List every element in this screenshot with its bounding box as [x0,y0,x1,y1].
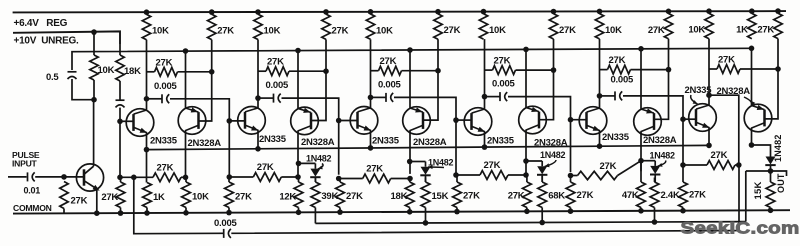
node rail 27K at x326 [323,9,329,15]
node rail 10K at x370 [368,9,374,15]
svg-text:27K: 27K [101,192,118,203]
transistor 2N335 stage 11 [689,104,717,132]
node T12 collector [749,142,755,148]
svg-text:+10V UNREG.: +10V UNREG. [14,36,80,47]
wire 27K column down stage 2 [211,40,213,72]
svg-text:18K: 18K [391,191,408,202]
transistor Q1 input [76,164,103,191]
resistor 27K bottom coupling stage 5 [339,178,363,180]
wire emitter stage 9 [599,131,601,147]
wire collector stage 3 [257,98,259,108]
node emitter bus stage 11 [706,143,712,149]
svg-text:27K: 27K [71,196,88,207]
node rail 27K at x553 [551,9,557,15]
diode 1N482 stage 4 [310,169,320,177]
svg-text:OUT: OUT [776,173,786,193]
wire 10K to node [93,80,95,100]
resistor 2.4K bottom x654 [654,178,656,183]
capacitor 0.01 input [27,172,29,181]
node common x570 [568,208,574,214]
wire 10K column to collector node stage 3 [257,40,259,99]
node coupling 27K right stage 1 [209,69,215,75]
node rail 10K at x146 [144,9,150,15]
node collector stage 7 [482,94,488,100]
wire PNP collector stage 4 [297,131,299,175]
svg-text:2N328A: 2N328A [188,138,222,149]
transistor 2N335 stage 9 [579,107,607,135]
node common x186 [183,210,189,216]
resistor 27K bottom coupling stage 11 [683,164,707,166]
node coupling 27K right stage 5 [666,67,672,73]
resistor 47K bottom x641 [640,161,642,182]
node PNP emitter bus stage 8 [523,47,529,53]
resistor 27K coupling top stage 2 [258,70,266,72]
resistor 12K bottom x298 [298,177,300,183]
node emitter bus stage 7 [482,144,488,150]
wire diode jog stage 6 [410,161,426,163]
transistor 2N335 stage 7 [464,108,492,136]
svg-text:10K: 10K [605,25,622,36]
capacitor 0.005 feedback [223,229,225,238]
wire diode cathode node [770,166,772,171]
svg-text:INPUT: INPUT [12,159,38,169]
wire emitter stage 11 [708,128,710,146]
resistor 27K bottom coupling stage 7 [456,174,480,176]
wire T11 collector to 739 col [709,95,739,165]
svg-text:27K: 27K [484,160,501,171]
node base stage 9 [568,117,574,123]
wire cap to next base stage 5 [394,97,456,120]
resistor 68K bottom x542 [541,176,543,182]
svg-text:10K: 10K [688,25,705,36]
wire diode cathode stage 6 [425,176,427,182]
resistor 10K supply x370 [366,14,374,39]
node divider line x425 [423,220,429,226]
resistor 27K supply x326 [322,14,330,39]
wire riser left from cathode [746,170,771,172]
svg-text:2N335: 2N335 [487,136,515,147]
svg-text:+6.4V REG: +6.4V REG [14,18,68,29]
wire emitter bus drop to 1K node [146,150,148,178]
node common x526 [524,209,530,215]
node base stage 11 [680,116,686,122]
node emitter bus stage 1 [144,147,150,153]
capacitor 0.005 coupling stage 9 [600,95,615,97]
svg-text:15K: 15K [432,191,449,202]
wire base col down stage 3 [228,121,230,176]
wire 27K bias to common [63,209,65,214]
node coupling 27K right stage 4 [551,67,557,73]
svg-text:1K: 1K [736,25,748,36]
node diode jog stage 4 [296,161,302,167]
wire PNP emitter stage 4 [297,51,299,109]
node bottom line left stage 5 [336,176,342,182]
svg-text:27K: 27K [156,57,173,68]
svg-text:27K: 27K [559,25,576,36]
resistor 1K supply x751 [748,13,756,38]
node coupling 27K right stage 2 [323,68,329,74]
svg-text:0.5: 0.5 [46,72,59,83]
svg-text:2N335: 2N335 [372,136,400,147]
wire feedback drop [134,177,223,233]
node common x457 [454,209,460,215]
diode 1N482 stage 8 [537,166,547,174]
wire base col down stage 9 [570,120,572,172]
wire PNP base corner stage 2 [311,71,326,120]
svg-text:12K: 12K [279,191,296,202]
svg-text:27K: 27K [380,56,397,67]
node PNP emitter bus stage 6 [407,47,413,53]
svg-text:68K: 68K [548,190,565,201]
resistor 27K bottom x570 [570,176,572,183]
wire divider 223 line [315,222,745,224]
svg-text:1N482: 1N482 [773,134,783,162]
node bottom line left stage 3 [227,174,233,180]
resistor 27K coupling top stage 5 [600,69,608,71]
svg-text:10K: 10K [376,25,393,36]
resistor 27K coupling top stage 6 [709,68,717,70]
node bottom line right stage 7 [523,172,529,178]
node +10V tap [91,29,97,35]
node base stage 3 [227,118,233,124]
node diode jog stage 10 [638,158,644,164]
wire collector stage 11 [708,95,710,105]
svg-text:47K: 47K [622,190,639,201]
resistor 27K bottom x340 [339,179,341,183]
node feedback tap [131,175,137,181]
wire base col down stage 11 [682,119,684,165]
svg-text:SeekIC.com: SeekIC.com [681,218,800,237]
svg-text:2N328A: 2N328A [643,135,677,146]
wire diode cathode stage 8 [541,175,543,182]
node common x683 [680,208,686,214]
wire PNP collector stage 12 [751,128,753,145]
wire Q1 collector [93,100,95,167]
svg-text:27K: 27K [609,55,626,66]
wire PNP base corner stage 5 [654,70,669,120]
wire PNP emitter stage 12 [751,48,753,105]
resistor 27K input bias [60,182,68,209]
callout arrow 1N482 stage 8 [545,160,556,167]
wire PNP collector stage 2 [185,131,187,177]
wire 0.5 cap to 10K node [72,79,94,100]
resistor 15K bottom x770 [770,171,772,182]
wire 27K column down stage 4 [325,39,327,71]
node collector stage 5 [368,95,374,101]
wire +10V UNREG rail [13,31,120,44]
node bottom line left stage 9 [568,173,574,179]
wire base stage 9 [571,119,588,121]
node rail 27K at x668 [666,9,672,15]
wire output stub [771,171,787,176]
transistor 2N335 stage 5 [350,107,378,135]
svg-text:10K: 10K [264,26,281,37]
wire output node riser [745,171,747,222]
node rail 10K at x709 [706,8,712,14]
node diode jog stage 8 [523,158,529,164]
node common x147 [144,210,150,216]
svg-text:27K: 27K [577,190,594,201]
node collector stage 9 [597,93,603,99]
wire cap to next base stage 9 [623,96,683,119]
svg-text:1N482: 1N482 [650,151,676,161]
capacitor 0.005 coupling stage 5 [371,96,386,98]
wire diode jog stage 8 [526,160,542,162]
svg-text:2.4K: 2.4K [661,190,680,201]
node common x120 [118,210,124,216]
svg-text:27K: 27K [346,191,363,202]
wire filtered emitter bus [72,48,752,70]
resistor 27K bottom coupling stage 1 [120,176,153,178]
transistor 2N335 stage 3 [238,107,266,135]
node rail 27K at x778 [775,8,781,14]
svg-text:27K: 27K [332,25,349,36]
wire 10K column to collector node stage 5 [370,39,372,97]
wire T12 collector to diode [752,145,771,157]
node rail 1K at x751 [749,8,755,14]
resistor 27K coupling top stage 3 [371,70,379,72]
wire PNP collector stage 6 [409,131,411,174]
resistor 27K bottom x229 [228,177,230,182]
capacitor 0.005 coupling stage 1 [147,98,162,100]
resistor 10K supply x483 [479,14,487,39]
svg-text:2N335: 2N335 [150,135,178,146]
resistor 1K bottom x147 [143,183,152,208]
wire collector stage 9 [599,96,601,108]
resistor 27K supply x553 [549,14,557,39]
wire COMMON rail [13,210,790,213]
transistor 2N328A stage 12 [744,104,772,132]
svg-text:0.005: 0.005 [492,79,515,90]
node collector stage 1 [144,96,150,102]
callout arrow 2N328A stage 12 [744,97,752,106]
transistor 2N328A stage 4 [291,107,319,135]
node common x409 [407,209,413,215]
wire input cap to base [35,176,83,178]
node PNP emitter bus stage 2 [183,48,189,54]
node coupling 27K right stage 3 [435,68,441,74]
node divider line x654 [652,219,658,225]
wire 27K column down stage 8 [553,39,555,70]
node common x770 [768,208,774,214]
wire collector stage 1 [146,99,148,110]
svg-text:0.005: 0.005 [154,81,177,92]
wire collector stage 7 [484,97,486,110]
node bottom line right stage 1 [183,175,189,181]
node 10K/0.5 junction [91,97,97,103]
node base stage 5 [336,118,342,124]
wire diode cathode stage 4 [314,178,316,182]
node collector stage 3 [255,95,261,101]
node rail 10K at x258 [255,9,261,15]
svg-text:15K: 15K [753,181,764,199]
wire base stage 1 [120,120,134,122]
svg-text:27K: 27K [689,190,706,201]
svg-text:18K: 18K [124,66,141,77]
wire +6.4V REG top supply rail [13,11,786,12]
wire base col down stage 7 [455,120,457,173]
resistor 27K supply x438 [434,14,442,39]
resistor 10K supply x258 [254,14,262,39]
node PNP emitter bus stage 10 [638,46,644,52]
node emitter bus stage 3 [255,146,261,152]
svg-text:27K: 27K [444,25,461,36]
resistor 10K supply x709 [705,13,713,38]
node rail 27K at x438 [435,9,441,15]
wire cap to next base stage 1 [170,99,229,121]
wire 27K column down stage 10 [668,39,670,70]
resistor 18K [116,55,124,81]
wire +10V tap [93,32,95,55]
wire cap to next base stage 7 [508,97,571,120]
svg-text:2N335: 2N335 [259,134,287,145]
diode 1N482 output [766,157,776,165]
capacitor 0.005 coupling stage 7 [485,96,500,98]
wire emitter stage 1 [146,133,148,150]
svg-text:27K: 27K [366,164,383,175]
node base stage 7 [453,117,459,123]
resistor 10K supply x599 [595,14,603,39]
resistor 39K bottom x315 [314,178,316,182]
node emitter bus stage 5 [368,145,374,151]
svg-text:2N328A: 2N328A [413,137,447,148]
svg-text:1N482: 1N482 [540,150,566,160]
node diode jog stage 6 [407,159,413,165]
svg-text:27K: 27K [257,162,274,173]
wire base col down stage 5 [338,121,340,175]
svg-text:27K: 27K [508,190,525,201]
svg-text:2N335: 2N335 [685,85,713,96]
wire PNP collector stage 8 [525,130,527,173]
node common x229 [226,210,232,216]
wire emitter stage 7 [484,132,486,148]
wire 18K to cap [119,81,121,100]
svg-text:0.005: 0.005 [266,80,289,91]
svg-text:27K: 27K [648,25,665,36]
svg-text:2N328A: 2N328A [301,137,335,148]
resistor 27K bottom x457 [456,175,458,182]
wire 27K column down stage 6 [437,39,439,70]
wire emitter stage 3 [257,130,259,149]
wire base stage 11 [683,118,697,120]
diode 1N482 stage 6 [421,167,431,175]
wire pulse input lead [8,176,27,178]
wire base col down stage 1 [119,121,121,177]
resistor 18K bottom x409 [409,179,411,183]
wire T1 emitter join 1K [146,177,148,182]
callout arrow 1N482 stage 4 [318,164,323,169]
callout arrow 1N482 stage 10 [658,161,666,167]
wire +10V corner to 18K [119,44,121,55]
resistor 27K bottom x120 [120,177,122,182]
resistor 27K coupling top stage 1 [147,71,155,73]
node rail 10K at x483 [481,9,487,15]
node bottom line right stage 5 [407,176,413,182]
wire base stage 7 [456,119,472,121]
resistor 27K bottom x683 [682,165,684,182]
wire 10K column to collector node stage 11 [708,39,710,95]
svg-text:0.005: 0.005 [378,79,401,90]
svg-text:1N482: 1N482 [306,154,332,164]
transistor 2N328A stage 8 [519,106,547,134]
wire PNP base corner stage 1 [199,72,212,121]
svg-text:27K: 27K [718,55,735,66]
wire cap to next base stage 3 [282,98,339,120]
wire base stage 5 [339,120,358,122]
node PNP emitter bus stage 12 [749,46,755,52]
resistor 27K coupling top stage 4 [485,69,493,71]
svg-text:27K: 27K [463,191,480,202]
node common x641 [638,208,644,214]
wire PNP collector stage 10 [640,132,642,172]
resistor 27K supply x668 [664,14,672,39]
wire diode jog stage 10 [641,160,655,162]
wire collector stage 5 [370,97,372,108]
svg-text:2N335: 2N335 [602,132,630,143]
node input base [61,174,67,180]
svg-text:27K: 27K [711,150,728,161]
node h27K end 739 [736,162,742,168]
wire PNP emitter stage 8 [525,49,527,107]
node common x340 [337,209,343,215]
svg-text:0.005: 0.005 [214,218,237,229]
node coupling 27K right stage 6 [775,66,781,72]
svg-text:27K: 27K [157,162,174,173]
wire cap to T1 base node [119,108,121,122]
resistor 10K supply x146 [142,14,150,39]
resistor 27K bottom coupling stage 3 [229,176,253,178]
node Q1 emitter common [94,210,100,216]
capacitor 0.005 coupling stage 3 [258,97,273,99]
node divider line x542 [539,220,545,226]
callout arrow 2N335 stage 11 [691,95,698,104]
svg-text:10K: 10K [98,65,115,76]
resistor 27K supply x211 [208,14,216,39]
svg-text:0.005: 0.005 [611,74,634,85]
wire PNP base corner stage 4 [539,70,554,120]
wire 27K column down stage 12 [777,39,779,69]
svg-text:27K: 27K [217,26,234,37]
node bottom line left stage 11 [680,162,686,168]
wire PNP base corner stage 6 [765,69,779,119]
capacitor 0.5 bus bypass [68,71,77,73]
resistor 10K input collector load [90,55,98,80]
node output diode cathode [768,168,774,174]
node bottom line right stage 3 [295,174,301,180]
transistor 2N328A stage 6 [403,107,431,135]
wire PNP emitter stage 6 [409,50,411,108]
wire Q1 emitter to common [96,189,98,213]
resistor 27K bottom coupling stage 9 [571,175,578,177]
diode 1N482 stage 10 [650,166,660,174]
wire PNP emitter stage 10 [640,49,642,109]
wire base stage 3 [229,120,245,122]
node bottom line left stage 7 [453,172,459,178]
svg-text:COMMON: COMMON [13,203,52,213]
node rail 10K at x599 [597,9,603,15]
svg-text:27K: 27K [494,56,511,67]
svg-text:0.01: 0.01 [24,186,41,196]
transistor 2N328A stage 10 [634,108,662,136]
wire 10K column to collector node stage 9 [599,39,601,96]
capacitor T1 base coupling [116,99,125,101]
svg-text:27K: 27K [757,25,774,36]
wire diode cathode stage 10 [654,175,656,182]
wire 10K column to collector node stage 1 [146,40,148,99]
node base stage 1 [117,119,123,125]
wire diode jog stage 4 [299,162,316,164]
resistor 15K bottom x425 [425,178,427,183]
